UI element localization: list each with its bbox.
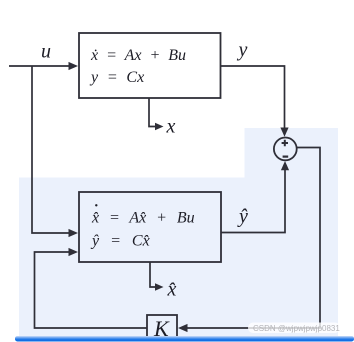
observer shaded region lower rectangle <box>19 178 338 337</box>
svg-text:y = Cx: y = Cx <box>89 69 144 86</box>
wire xhat state tap below observer block <box>150 262 156 287</box>
wire y output to summing junction <box>220 66 285 128</box>
arrowhead u into observer block <box>69 229 79 237</box>
arrowhead x tap <box>155 123 164 130</box>
dot over observer xhat <box>95 204 97 206</box>
arrowhead yhat into summing junction bottom <box>281 161 289 170</box>
svg-text:u: u <box>41 41 51 63</box>
arrowhead feedback into observer block <box>69 248 79 256</box>
arrowhead into plant block <box>69 62 79 70</box>
svg-text:ẋ = Ax + Bu: ẋ = Ax + Bu <box>90 47 186 64</box>
wire input u horizontal <box>9 65 69 67</box>
summing junction minus sign <box>283 156 289 158</box>
wire x state tap below plant block <box>149 98 156 127</box>
wire error from summing junction to K <box>187 148 320 329</box>
svg-text:CSDN @wjpwjpwjp0831: CSDN @wjpwjpwjp0831 <box>253 324 340 333</box>
arrowhead y into summing junction top <box>280 128 288 137</box>
svg-text:x: x <box>166 116 176 138</box>
wire yhat output up to summing junction <box>221 170 285 233</box>
svg-text:x̂ = Ax̂ + Bu: x̂ = Ax̂ + Bu <box>91 210 195 227</box>
svg-text:ŷ: ŷ <box>237 206 248 228</box>
summing junction plus sign <box>282 140 288 146</box>
gain block K <box>147 315 177 337</box>
wire K output feedback to observer <box>35 252 148 328</box>
arrowhead xhat tap <box>155 283 164 290</box>
wire u branch down to observer <box>32 66 69 233</box>
observer shaded region upper-right rectangle <box>245 128 339 180</box>
summing junction <box>274 138 297 161</box>
svg-text:ŷ = Cx̂: ŷ = Cx̂ <box>90 233 150 250</box>
plant block <box>79 33 221 98</box>
watermark background band <box>248 323 340 334</box>
svg-text:x̂: x̂ <box>167 279 177 301</box>
observer block <box>79 192 221 262</box>
svg-text:y: y <box>237 39 248 61</box>
arrowhead error into K right side <box>178 324 188 332</box>
